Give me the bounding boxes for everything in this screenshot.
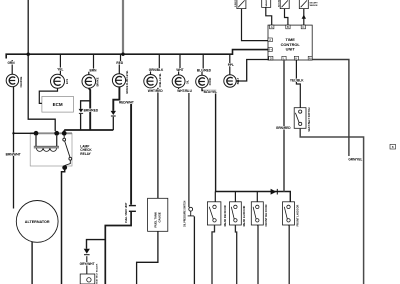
svg-text:WHT/BLU: WHT/BLU	[177, 89, 192, 93]
svg-text:A: A	[271, 25, 273, 29]
svg-text:ECM: ECM	[53, 102, 63, 107]
svg-text:GRN: GRN	[7, 61, 15, 65]
svg-text:GRN/YEL: GRN/YEL	[348, 158, 362, 162]
svg-text:BRN/RED: BRN/RED	[84, 109, 99, 113]
svg-text:KEY SW: KEY SW	[278, 0, 280, 7]
svg-text:FUEL TANK UNIT: FUEL TANK UNIT	[125, 202, 128, 223]
svg-text:B: B	[287, 25, 289, 29]
svg-text:SEAT BELT BUZZER: SEAT BELT BUZZER	[96, 263, 99, 284]
svg-text:YEL: YEL	[57, 68, 63, 72]
svg-text:SEAT BELT SWITCH: SEAT BELT SWITCH	[308, 107, 311, 131]
svg-text:BLU/RED: BLU/RED	[197, 69, 212, 73]
svg-text:CHARGE: CHARGE	[20, 76, 23, 87]
svg-text:REAR LH DOOR: REAR LH DOOR	[242, 206, 246, 227]
svg-text:FRONT RH DOOR: FRONT RH DOOR	[264, 204, 268, 226]
svg-text:WHT: WHT	[176, 68, 183, 72]
svg-text:RED: RED	[116, 61, 123, 65]
svg-text:OIL PRESSURE SWITCH: OIL PRESSURE SWITCH	[185, 200, 187, 227]
svg-text:BRAKE: BRAKE	[96, 77, 99, 86]
svg-text:WAGON: WAGON	[310, 4, 318, 7]
svg-text:BRN: BRN	[90, 69, 98, 73]
svg-text:REAR RH DOOR: REAR RH DOOR	[223, 205, 227, 226]
svg-text:FRONT LH DOOR: FRONT LH DOOR	[295, 205, 299, 227]
svg-text:BELT: BELT	[237, 77, 240, 84]
svg-text:K: K	[295, 56, 297, 60]
svg-text:BLU/YEL: BLU/YEL	[204, 90, 218, 94]
svg-text:R DEFOG SW: R DEFOG SW	[235, 0, 237, 7]
svg-text:RED/WHT: RED/WHT	[119, 100, 134, 104]
svg-text:BRAKE FLUID LEVEL: BRAKE FLUID LEVEL	[126, 70, 129, 94]
svg-text:BRN/WHT: BRN/WHT	[6, 153, 21, 157]
svg-text:RELAY: RELAY	[80, 152, 91, 156]
svg-text:ALTERNATOR: ALTERNATOR	[25, 220, 50, 224]
svg-text:YEL/BLK: YEL/BLK	[290, 78, 304, 82]
svg-text:OIL: OIL	[187, 80, 190, 85]
svg-text:PPL: PPL	[228, 63, 234, 67]
svg-text:GRN/RED: GRN/RED	[276, 126, 291, 130]
svg-text:ECS: ECS	[66, 79, 69, 84]
svg-text:FUEL LEVEL: FUEL LEVEL	[160, 73, 162, 88]
svg-text:DOOR: DOOR	[209, 78, 212, 86]
svg-text:GRY/WHT: GRY/WHT	[80, 262, 95, 266]
svg-text:GRN/BLK: GRN/BLK	[149, 68, 164, 72]
svg-text:WHT/RED: WHT/RED	[148, 89, 164, 93]
svg-text:UNIT: UNIT	[286, 47, 296, 52]
svg-text:WASHER: WASHER	[265, 0, 268, 7]
svg-text:B: B	[392, 145, 394, 149]
svg-text:B+: B+	[268, 48, 272, 52]
svg-text:GAUGE: GAUGE	[158, 212, 162, 222]
